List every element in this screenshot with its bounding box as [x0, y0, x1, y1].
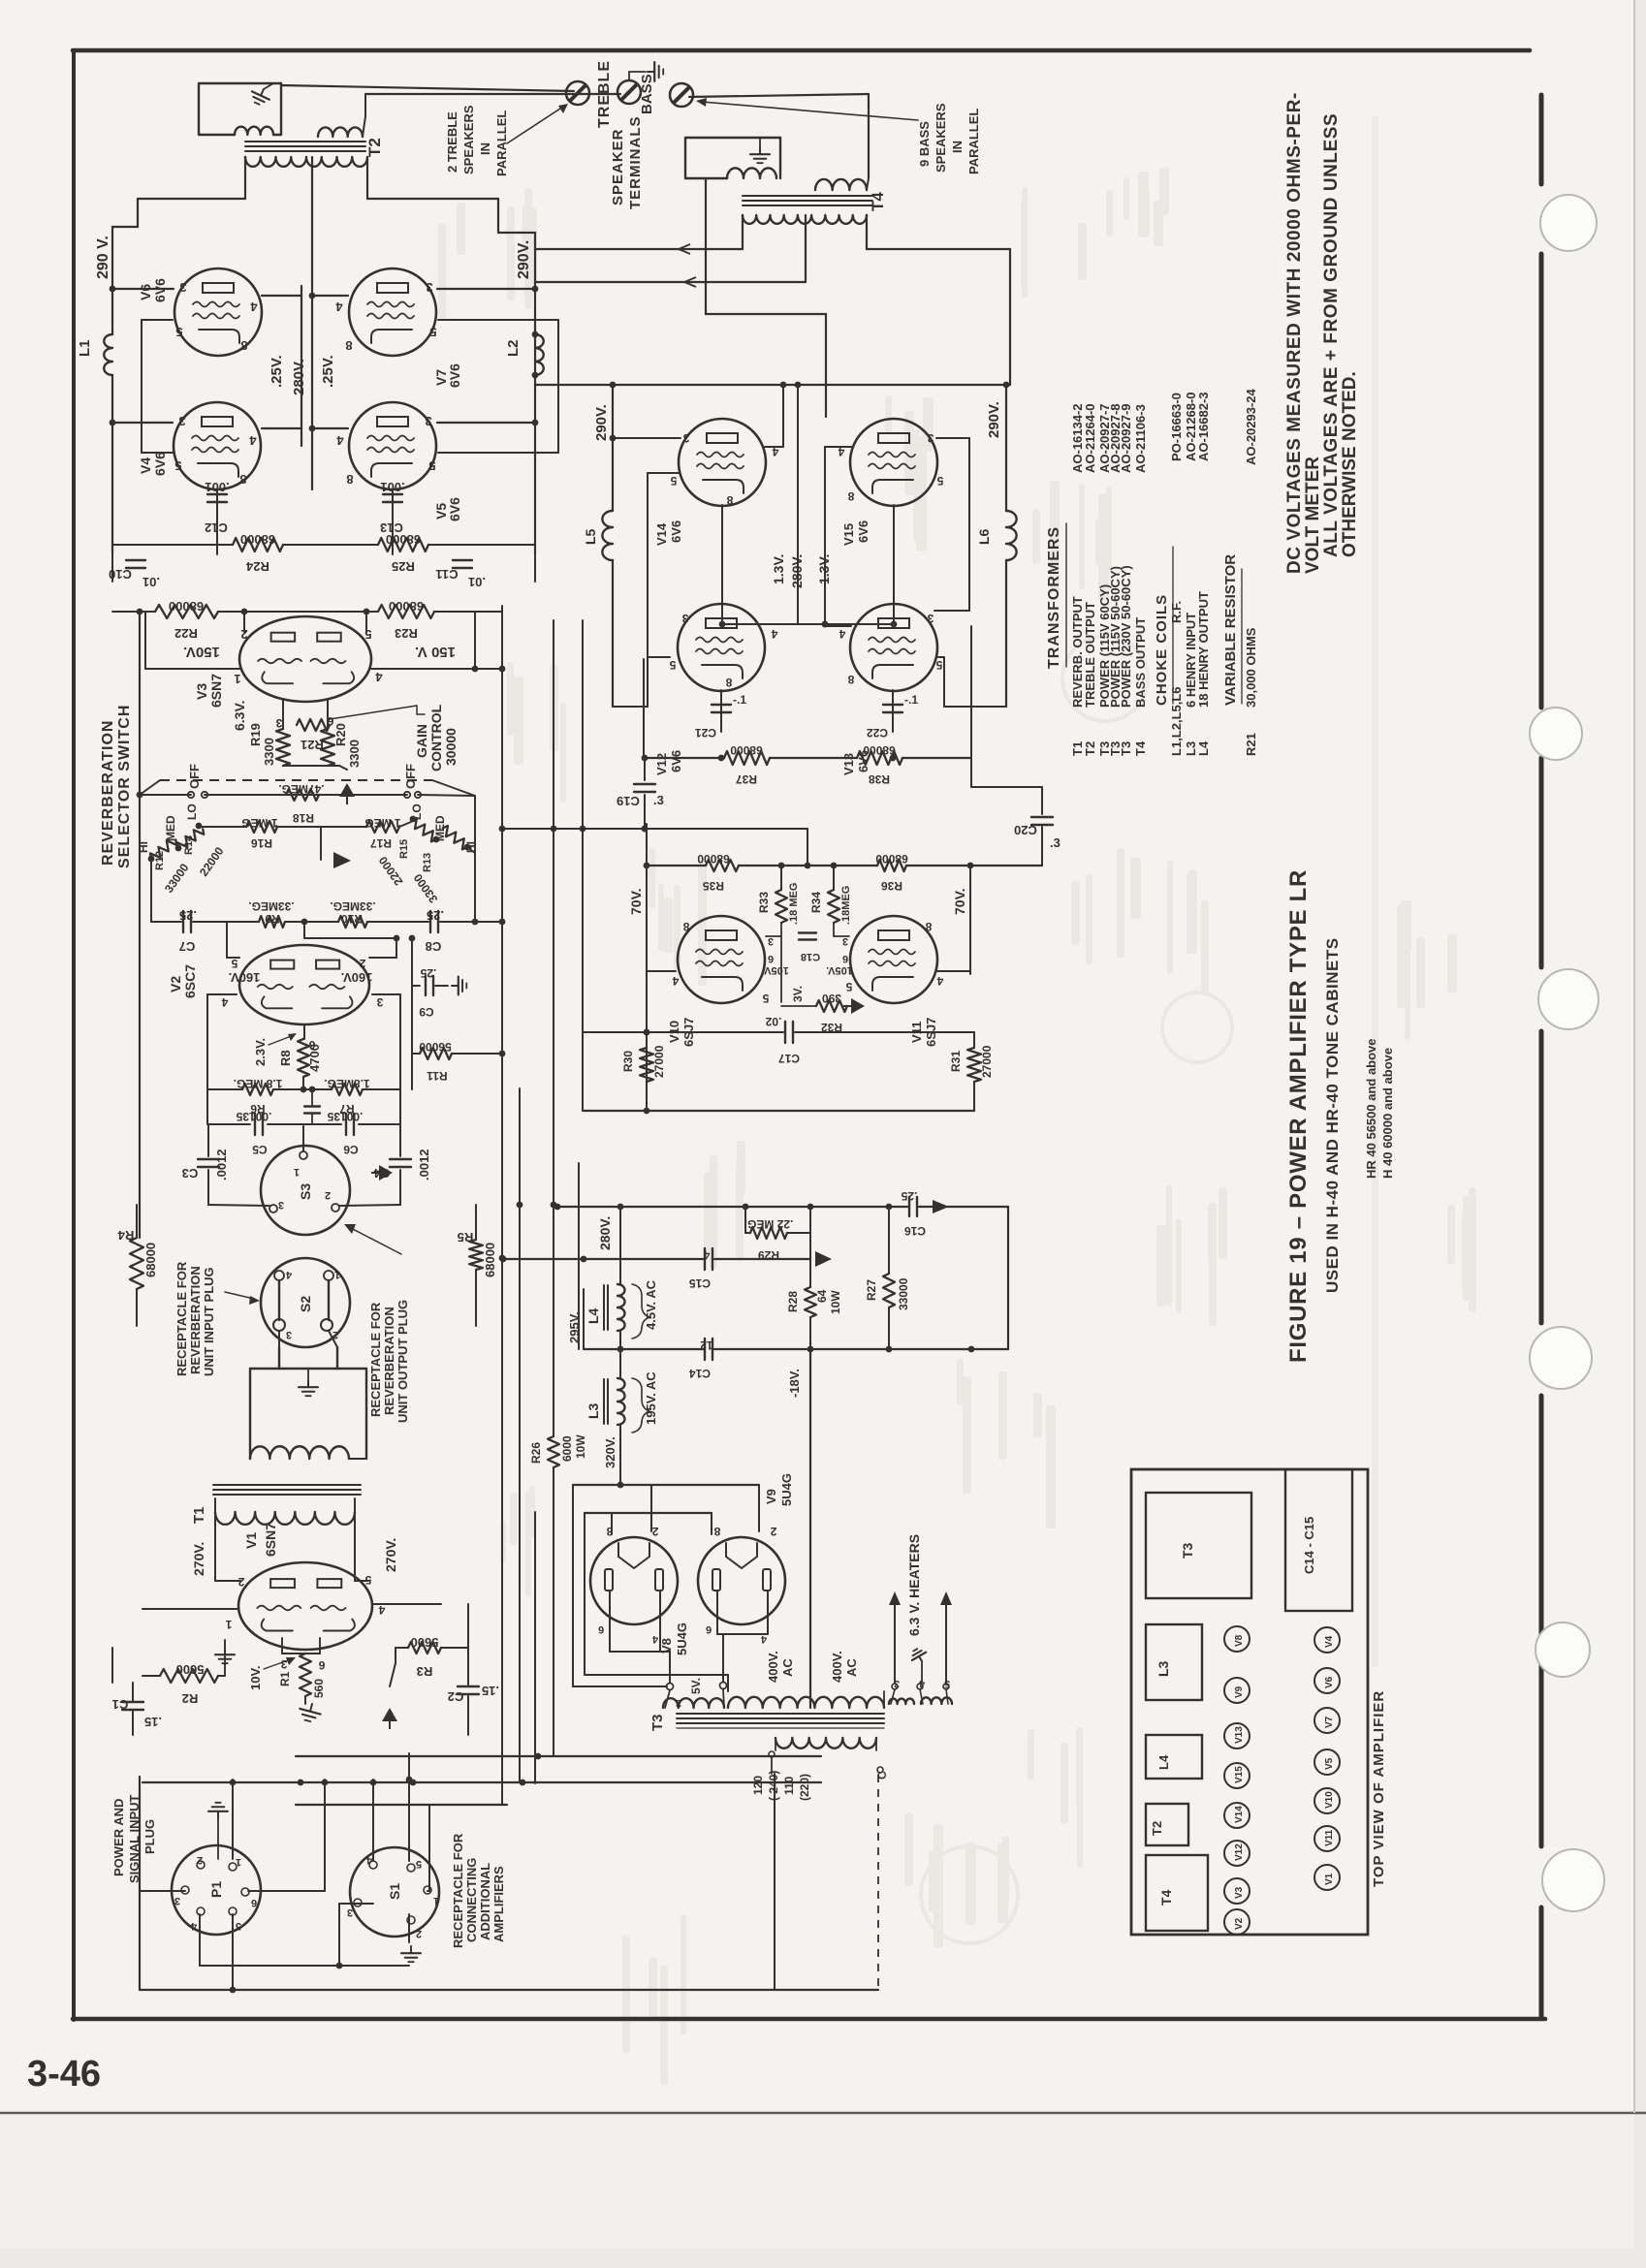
svg-text:IN: IN	[950, 141, 965, 153]
label primary taps	[751, 1771, 811, 1801]
table heading VARIABLE RESISTOR	[1222, 554, 1242, 706]
svg-text:8: 8	[847, 489, 854, 503]
wire driver grid bus	[647, 863, 1042, 869]
label GAIN CONTROL 30000	[414, 704, 459, 772]
choke L4	[604, 1207, 625, 1349]
label 3V.	[791, 986, 805, 1002]
tube V2 6SC7	[239, 945, 369, 1024]
label RECEPTACLE FOR REVERBERATION UNIT INPUT PLUG	[174, 1261, 216, 1376]
plug P1	[172, 1845, 261, 1935]
ground at speaker terminals	[629, 62, 663, 81]
label 1.3V. left	[771, 554, 786, 584]
wire bottom bus2	[140, 1774, 878, 1990]
tube V10 6SJ7	[678, 916, 765, 1003]
resistor R26 6000 10W	[529, 1434, 587, 1467]
svg-text:REVERBERATION: REVERBERATION	[188, 1266, 203, 1374]
transformer T1 lower winding	[215, 1498, 355, 1525]
svg-text:SIGNAL INPUT: SIGNAL INPUT	[127, 1794, 142, 1883]
wire V14 cathode	[719, 505, 894, 627]
svg-text:3: 3	[682, 431, 689, 445]
svg-text:5: 5	[428, 458, 435, 473]
svg-text:8: 8	[345, 338, 352, 353]
wire V2 grid leads	[227, 922, 399, 958]
svg-text:1: 1	[334, 1269, 340, 1280]
label .25V. right	[320, 355, 336, 388]
svg-text:R38: R38	[869, 772, 890, 786]
svg-text:H 40 60000 and above: H 40 60000 and above	[1380, 1048, 1395, 1179]
ground arrow coupling	[371, 1165, 393, 1181]
svg-text:8: 8	[925, 920, 932, 933]
transformer T2 core	[245, 142, 365, 151]
svg-text:V5: V5	[1324, 1757, 1335, 1770]
label 160V. right	[341, 970, 373, 985]
label 280V. psu	[597, 1216, 613, 1250]
svg-text:R28: R28	[786, 1291, 800, 1312]
svg-text:3: 3	[425, 414, 431, 428]
ground at T4 secondary	[750, 138, 770, 163]
wire V8 cathodes	[610, 1591, 670, 1683]
top view box T2	[1146, 1804, 1188, 1845]
svg-text:R13: R13	[422, 853, 433, 872]
svg-text:8: 8	[240, 338, 247, 353]
svg-text:R9: R9	[265, 912, 280, 926]
label 10V.	[248, 1657, 296, 1690]
svg-text:S1: S1	[387, 1883, 402, 1900]
resistor R20 3300	[321, 700, 362, 768]
svg-text:AC: AC	[844, 1658, 859, 1677]
svg-text:ADDITIONAL: ADDITIONAL	[478, 1863, 492, 1940]
svg-text:R34: R34	[809, 892, 823, 913]
svg-text:5: 5	[175, 325, 182, 339]
svg-text:R25: R25	[392, 559, 415, 574]
label 2 TREBLE SPEAKERS IN PARALLEL	[445, 105, 509, 176]
svg-text:C15: C15	[689, 1276, 711, 1290]
svg-text:.22 MEG.: .22 MEG.	[744, 1217, 794, 1231]
svg-text:C19: C19	[617, 794, 640, 808]
svg-text:68000: 68000	[240, 532, 275, 547]
resistor R31 27000	[949, 1032, 994, 1111]
capacitor C1 .15	[112, 1648, 162, 1735]
wire driver left rail	[644, 824, 650, 1095]
speaker terminal screw TREBLE	[566, 81, 589, 105]
label RECEPTACLE FOR CONNECTING ADDITIONAL AMPLIFIERS	[451, 1833, 506, 1948]
switch OFF contacts	[188, 792, 421, 798]
svg-text:5600: 5600	[411, 1635, 439, 1650]
svg-text:30,000 OHMS: 30,000 OHMS	[1244, 627, 1258, 708]
svg-text:4: 4	[375, 670, 383, 684]
choke L3	[604, 1349, 625, 1482]
ground at T2 secondary	[248, 83, 273, 108]
svg-text:V1: V1	[243, 1532, 259, 1549]
wire bottom left rail	[139, 1777, 141, 1990]
wire T2 sec2 to screw2	[365, 93, 620, 95]
svg-text:3: 3	[179, 280, 186, 295]
svg-text:AC: AC	[780, 1658, 795, 1677]
svg-text:6SC7: 6SC7	[182, 964, 198, 998]
label 6.3 V. HEATERS	[906, 1534, 922, 1636]
transformer T4 primary winding	[743, 215, 867, 224]
svg-text:3: 3	[426, 280, 432, 295]
svg-text:-18V.: -18V.	[787, 1369, 802, 1398]
svg-text:R27: R27	[865, 1279, 878, 1301]
svg-text:L3: L3	[1155, 1660, 1171, 1677]
wire V2 plate leads	[207, 994, 400, 1089]
tube V1 6SN7	[238, 1562, 372, 1650]
svg-text:68000: 68000	[143, 1243, 158, 1277]
svg-text:5: 5	[236, 1920, 241, 1932]
svg-text:R24: R24	[245, 559, 269, 574]
svg-text:270V.: 270V.	[383, 1538, 398, 1572]
wire right B+ rail	[367, 157, 535, 552]
resistor R8 4700	[278, 1024, 322, 1089]
svg-text:V15: V15	[841, 523, 856, 546]
svg-text:RECEPTACLE FOR: RECEPTACLE FOR	[451, 1833, 465, 1948]
svg-text:C17: C17	[778, 1052, 800, 1065]
svg-text:320V.: 320V.	[603, 1436, 617, 1468]
wire V1 plates	[215, 1512, 368, 1581]
wire V15 screen	[822, 447, 852, 627]
svg-text:3: 3	[174, 1895, 180, 1906]
svg-text:4: 4	[250, 299, 258, 314]
svg-text:5U4G: 5U4G	[675, 1622, 689, 1655]
svg-text:6: 6	[768, 953, 774, 964]
svg-text:.25: .25	[901, 1189, 917, 1203]
svg-text:64: 64	[815, 1289, 829, 1303]
top view box T3	[1146, 1493, 1251, 1598]
svg-text:3-46: 3-46	[27, 2054, 101, 2095]
resistor R30 27000	[621, 1045, 666, 1111]
heater arrows	[889, 1591, 952, 1683]
capacitor C15 4	[689, 1248, 712, 1290]
label T2	[365, 138, 384, 157]
capacitor C3 .0012	[182, 1124, 229, 1205]
svg-text:27000: 27000	[652, 1045, 666, 1078]
svg-text:V6: V6	[1324, 1676, 1335, 1688]
capacitor C22 .1	[867, 693, 919, 740]
svg-text:70V.: 70V.	[952, 888, 967, 915]
svg-text:REVERBERATION: REVERBERATION	[100, 720, 116, 866]
svg-text:C9: C9	[419, 1005, 434, 1019]
svg-text:290V.: 290V.	[593, 404, 610, 441]
tube V3 6SN7	[239, 616, 371, 702]
pin labels V11	[842, 920, 943, 993]
svg-text:.00135: .00135	[327, 1110, 363, 1123]
svg-text:.0012: .0012	[417, 1149, 431, 1181]
page number 3-46	[27, 2054, 101, 2095]
svg-text:PO-16663-0: PO-16663-0	[1169, 393, 1184, 461]
transformer T3 HV winding	[728, 1691, 884, 1708]
svg-text:3: 3	[927, 612, 934, 625]
svg-text:.25: .25	[420, 966, 436, 980]
wire V10 screen bus	[647, 970, 970, 972]
tube V5 6V6	[349, 402, 436, 489]
wire C dashed	[877, 1775, 879, 1990]
resistor R34 .18MEG	[809, 866, 852, 925]
svg-text:C10: C10	[109, 567, 132, 582]
svg-text:R26: R26	[529, 1442, 543, 1464]
top view tube circles	[1224, 1626, 1340, 1935]
tube V15 6V6	[850, 419, 937, 506]
svg-text:TREBLE: TREBLE	[596, 60, 613, 128]
svg-text:R4: R4	[117, 1228, 134, 1243]
pin labels V14	[670, 431, 778, 507]
svg-text:.001: .001	[205, 480, 229, 494]
switch wiper arrow	[321, 827, 351, 868]
wire V6 V4 grid rail	[142, 320, 173, 453]
table heading TRANSFORMERS	[1046, 523, 1066, 669]
label L2	[505, 339, 522, 357]
svg-text:3300: 3300	[347, 740, 362, 768]
label V8 5U4G	[659, 1622, 689, 1655]
svg-text:R11: R11	[427, 1069, 448, 1083]
svg-text:1.3V.: 1.3V.	[771, 554, 786, 584]
svg-text:5: 5	[416, 1858, 422, 1870]
transformer T2 secondary loop	[199, 83, 281, 135]
svg-text:C11: C11	[435, 567, 458, 582]
svg-text:8: 8	[725, 676, 732, 689]
resistor R17 1MEG	[321, 816, 411, 850]
capacitor C18	[799, 933, 820, 963]
svg-text:T2: T2	[365, 138, 384, 157]
resistor R15 22000	[376, 816, 439, 888]
svg-text:290V.: 290V.	[516, 240, 532, 279]
svg-text:.47MEG.: .47MEG.	[278, 782, 324, 796]
svg-text:(220): (220)	[798, 1774, 811, 1801]
svg-text:TREBLE OUTPUT: TREBLE OUTPUT	[1083, 602, 1097, 708]
transformer T2 secondary winding	[318, 94, 365, 137]
svg-text:4: 4	[365, 1854, 372, 1866]
wire R29 right	[809, 1207, 811, 1259]
svg-text:L2: L2	[505, 339, 522, 357]
label POWER AND SIGNAL INPUT PLUG	[111, 1794, 157, 1883]
wire V6 plate lead	[110, 286, 174, 293]
svg-text:6: 6	[318, 1658, 325, 1672]
svg-text:68000: 68000	[697, 852, 730, 866]
label -18V.	[787, 1369, 802, 1398]
wire driver top bus	[500, 826, 807, 866]
svg-text:R8: R8	[278, 1050, 293, 1066]
svg-text:PLUG: PLUG	[142, 1819, 157, 1854]
svg-text:TERMINALS: TERMINALS	[627, 116, 644, 210]
label .25V. left	[269, 355, 285, 388]
label 160V. left	[229, 970, 261, 985]
svg-text:3: 3	[275, 716, 282, 730]
label 290V. bass right	[986, 401, 1002, 438]
label 1.3V. right	[816, 554, 832, 584]
svg-text:8: 8	[239, 472, 246, 487]
svg-text:2 TREBLE: 2 TREBLE	[445, 111, 459, 173]
capacitor C8 .25	[426, 908, 502, 954]
wire screen rail mid	[262, 286, 301, 446]
svg-text:3: 3	[286, 1329, 292, 1340]
svg-text:1: 1	[433, 1895, 439, 1906]
svg-text:3300: 3300	[262, 738, 276, 766]
svg-text:3: 3	[681, 612, 688, 625]
svg-text:AO-16682-3: AO-16682-3	[1196, 392, 1211, 461]
pin labels V9	[706, 1525, 776, 1645]
capacitor C12	[205, 480, 230, 554]
svg-text:295V.: 295V.	[567, 1311, 582, 1343]
resistor R18 .47MEG	[278, 782, 324, 825]
note DC VOLTAGES	[1284, 92, 1305, 574]
svg-text:V3: V3	[1234, 1886, 1245, 1899]
svg-text:C14: C14	[689, 1367, 711, 1380]
arrow on psu bus	[933, 1200, 949, 1213]
svg-text:6: 6	[842, 953, 848, 964]
transformer T1 upper winding	[250, 1446, 366, 1459]
svg-text:400V.: 400V.	[830, 1651, 844, 1683]
svg-text:V9: V9	[1234, 1685, 1245, 1698]
svg-text:AO-21264-0: AO-21264-0	[1083, 403, 1097, 473]
svg-text:4: 4	[249, 433, 257, 448]
label 270V. left	[191, 1542, 206, 1576]
svg-text:V7: V7	[1324, 1716, 1335, 1728]
label 280V. mid	[291, 359, 307, 395]
label V1 6SN7	[243, 1523, 278, 1557]
svg-text:6.3V.: 6.3V.	[232, 701, 247, 731]
svg-text:68000: 68000	[875, 852, 908, 866]
wire V3 grids	[145, 612, 505, 672]
note OTHERWISE NOTED	[1340, 371, 1360, 557]
table transformer rows	[1070, 403, 1148, 756]
label V10 6SJ7	[667, 1018, 696, 1047]
tube V14 6V6	[679, 419, 766, 506]
svg-text:T2: T2	[1150, 1821, 1164, 1836]
resistor R10 .33MEG	[304, 899, 428, 928]
svg-text:MED: MED	[164, 815, 177, 841]
svg-text:V12: V12	[1234, 1843, 1245, 1861]
svg-text:R22: R22	[174, 626, 198, 641]
tube V11 6SJ7	[850, 916, 937, 1003]
svg-text:R3: R3	[417, 1664, 433, 1679]
svg-text:6V6: 6V6	[447, 497, 462, 521]
svg-text:REVERBERATION: REVERBERATION	[382, 1307, 396, 1415]
capacitor C6 .00135	[327, 1110, 363, 1156]
note VOLT METER	[1303, 457, 1323, 574]
label 150V. left	[183, 644, 220, 660]
ground at S1	[401, 1946, 421, 1962]
svg-text:8: 8	[346, 472, 353, 487]
wire V13 cathode to C22	[892, 690, 894, 732]
label V6 6V6	[138, 278, 168, 302]
wire T4 center tap	[535, 215, 806, 287]
svg-text:4: 4	[336, 433, 344, 448]
wire V15 cathode	[891, 505, 898, 627]
wire bus rails middle	[499, 606, 586, 1805]
resistor R4 68000	[117, 1205, 158, 1326]
label RECEPTACLE FOR REVERBERATION UNIT OUTPUT PLUG	[368, 1300, 410, 1423]
subtitle HR40	[1364, 1038, 1395, 1179]
wire V11 grid	[834, 923, 849, 936]
label 9 BASS SPEAKERS IN PARALLEL	[917, 103, 981, 174]
subtitle USED IN	[1323, 937, 1342, 1293]
svg-text:R.F.: R.F.	[1169, 601, 1184, 623]
capacitor C13	[380, 480, 405, 554]
choke L1	[104, 334, 112, 375]
wire V14 screen	[765, 385, 783, 447]
svg-text:3: 3	[376, 995, 383, 1009]
svg-text:5: 5	[429, 325, 436, 339]
svg-text:6000: 6000	[560, 1435, 574, 1462]
svg-text:2: 2	[359, 957, 365, 970]
label 290V. bass left	[593, 404, 610, 441]
svg-text:18 HENRY OUTPUT: 18 HENRY OUTPUT	[1196, 591, 1211, 708]
wire bass bias bus	[644, 626, 971, 761]
label SPEAKER TERMINALS	[610, 116, 644, 210]
svg-text:R15: R15	[398, 839, 410, 859]
label L4	[586, 1307, 601, 1324]
svg-text:AMPLIFIERS: AMPLIFIERS	[491, 1866, 506, 1942]
svg-text:L4: L4	[1156, 1754, 1171, 1770]
svg-text:T3: T3	[1180, 1542, 1195, 1559]
svg-text:V13: V13	[841, 753, 856, 775]
label 270V. right	[383, 1538, 398, 1572]
svg-text:BASS OUTPUT: BASS OUTPUT	[1133, 617, 1148, 708]
svg-text:.15: .15	[144, 1715, 162, 1729]
svg-text:.3: .3	[1050, 835, 1060, 850]
svg-text:T4: T4	[869, 192, 887, 211]
wire driver right rail	[967, 863, 974, 974]
table variable resistor row	[1244, 388, 1258, 756]
pin labels V10	[672, 920, 774, 1005]
svg-text:5600: 5600	[176, 1662, 205, 1677]
svg-text:2: 2	[651, 1525, 658, 1538]
resistor R32 390	[781, 936, 865, 1034]
svg-text:V6: V6	[138, 284, 153, 300]
svg-text:5: 5	[762, 992, 769, 1005]
svg-text:2: 2	[325, 1189, 331, 1201]
transformer T4 core	[743, 196, 872, 205]
top view box T4	[1146, 1855, 1208, 1931]
wire V9 cathodes	[717, 1591, 768, 1682]
svg-text:280V.: 280V.	[291, 359, 307, 395]
pin labels V1	[225, 1573, 385, 1672]
pin labels V2	[221, 957, 383, 1052]
svg-text:.00135: .00135	[236, 1110, 271, 1123]
transformer T1 primary loop	[250, 1347, 366, 1459]
svg-text:SPEAKERS: SPEAKERS	[934, 103, 948, 173]
coupling capacitor	[301, 1087, 320, 1124]
svg-text:4: 4	[839, 627, 845, 641]
svg-text:V14: V14	[654, 522, 669, 546]
label 150V. right	[415, 644, 456, 660]
svg-text:1 MEG: 1 MEG	[241, 816, 277, 830]
transformer T3 heater winding	[889, 1684, 952, 1704]
svg-text:L5: L5	[583, 528, 598, 545]
svg-text:1: 1	[236, 1856, 241, 1868]
svg-text:L3: L3	[586, 1402, 601, 1419]
capacitor C4 .0012	[373, 1124, 431, 1205]
wire V4 plate lead	[110, 420, 173, 426]
capacitor C19 .3	[617, 755, 664, 833]
label L3	[586, 1402, 601, 1419]
svg-text:9 BASS: 9 BASS	[917, 121, 932, 167]
resistor R22 68000	[112, 599, 312, 641]
svg-text:V10: V10	[1324, 1791, 1335, 1809]
ground arrow R3	[382, 1648, 397, 1729]
svg-text:R37: R37	[736, 772, 757, 786]
svg-text:-.1: -.1	[904, 693, 918, 707]
wire psu bus 280V	[554, 1204, 1008, 1211]
capacitor C5 .00135	[236, 1110, 271, 1156]
svg-text:VOLT METER: VOLT METER	[1303, 457, 1323, 574]
wire rect HV left	[585, 1675, 728, 1691]
svg-text:R33: R33	[757, 892, 771, 913]
svg-text:AO-20927-9: AO-20927-9	[1119, 403, 1133, 473]
svg-text:4: 4	[703, 1248, 710, 1262]
svg-text:290 V.: 290 V.	[95, 236, 111, 279]
wire V3 plates	[241, 609, 370, 632]
